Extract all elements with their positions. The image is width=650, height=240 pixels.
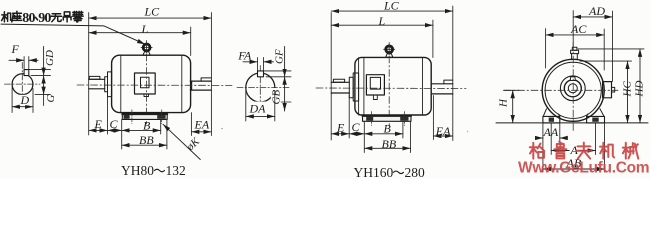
left bearing cap bbox=[353, 73, 358, 101]
foot bar bbox=[122, 113, 167, 119]
dimension AD bbox=[573, 16, 612, 18]
svg-text:AC: AC bbox=[570, 22, 587, 36]
extension lines below bbox=[349, 96, 433, 153]
eyebolt bbox=[143, 44, 150, 51]
GD dimension arrow bbox=[43, 47, 45, 76]
HD top tick bbox=[578, 48, 644, 50]
header note 机座80、90无吊攀 (hand-drawn hanzi + digits) bbox=[2, 11, 84, 26]
D dimension line bbox=[12, 106, 33, 108]
hanzi 吊 bbox=[63, 12, 71, 22]
shaft keyway notch bbox=[571, 77, 576, 81]
base line bbox=[496, 122, 648, 124]
right foot bbox=[587, 116, 605, 123]
gussets bbox=[543, 109, 604, 117]
svg-text:F: F bbox=[11, 42, 20, 56]
dimension E bbox=[331, 133, 349, 135]
svg-text:H: H bbox=[498, 98, 510, 108]
left shaft bbox=[89, 79, 105, 89]
GD ticks bbox=[29, 70, 51, 76]
terminal box (end view) bbox=[603, 82, 612, 98]
left bearing cap bbox=[108, 72, 112, 97]
foot hole slots bbox=[366, 117, 373, 121]
shaft circle DA bbox=[246, 73, 275, 102]
svg-text:90: 90 bbox=[38, 11, 51, 26]
GF dimension arrow bbox=[284, 47, 286, 77]
dimension L bbox=[89, 32, 191, 34]
svg-text:B: B bbox=[143, 119, 151, 133]
hanzi 无 bbox=[51, 14, 61, 22]
svg-text:D: D bbox=[20, 93, 30, 107]
left extension line (shaft end) bbox=[88, 13, 90, 136]
watermark hanzi 机 bbox=[600, 143, 614, 159]
D extension lines bbox=[12, 88, 33, 113]
dimension LC bbox=[331, 10, 453, 12]
dimension B bbox=[364, 133, 403, 135]
svg-text:BB: BB bbox=[382, 137, 397, 151]
L right extension bbox=[190, 27, 192, 56]
G tick bbox=[35, 94, 51, 96]
AD right extension bbox=[612, 11, 614, 82]
label D bbox=[20, 95, 31, 106]
svg-text:HD: HD bbox=[634, 81, 646, 98]
dimension EA bbox=[433, 135, 452, 137]
motor body bbox=[355, 57, 431, 115]
hanzi 机 bbox=[2, 12, 12, 22]
left extension line bbox=[330, 13, 332, 141]
end shield seam left bbox=[120, 55, 122, 112]
HC top tick bbox=[580, 60, 632, 62]
svg-text:E: E bbox=[336, 121, 345, 135]
F dimension arrows bbox=[9, 59, 24, 61]
centerline horizontal bbox=[77, 84, 232, 86]
dimension A bbox=[551, 150, 595, 152]
AC extensions bbox=[546, 29, 605, 71]
bearing boss circles bbox=[560, 76, 585, 101]
svg-text:YH160: YH160 bbox=[354, 165, 394, 179]
foot hole centerlines bbox=[132, 110, 162, 124]
svg-text:L: L bbox=[378, 14, 386, 28]
svg-text:GD: GD bbox=[44, 50, 56, 66]
end shield seam left bbox=[363, 58, 365, 115]
svg-text:DA: DA bbox=[249, 102, 267, 116]
centerline vertical bbox=[21, 63, 23, 104]
dimension AB bbox=[543, 168, 605, 170]
svg-text:EA: EA bbox=[194, 118, 210, 132]
foot hole centerlines bbox=[372, 112, 405, 126]
hanzi 座 bbox=[12, 11, 22, 22]
svg-text:HC: HC bbox=[622, 81, 634, 98]
svg-text:B: B bbox=[384, 122, 392, 136]
terminal box bbox=[366, 75, 384, 95]
left foot bbox=[543, 116, 560, 123]
AB extensions (foot outer edges) bbox=[543, 124, 605, 173]
GB dimension arrows bbox=[284, 77, 286, 111]
eyebolt bbox=[386, 46, 393, 53]
svg-text:80: 80 bbox=[22, 11, 35, 26]
right shaft bbox=[431, 84, 453, 94]
scan speck bbox=[467, 131, 468, 132]
centerline vertical bbox=[572, 43, 574, 132]
svg-text:G: G bbox=[45, 95, 57, 103]
watermark hanzi 格 bbox=[530, 143, 545, 159]
svg-text:LC: LC bbox=[144, 5, 161, 19]
outer frame circle bbox=[542, 59, 604, 121]
foot hole slots bbox=[124, 115, 130, 119]
keyway slot bbox=[258, 71, 264, 77]
FA extension lines bbox=[258, 58, 264, 71]
right extension line (shaft end) bbox=[210, 13, 212, 136]
svg-text:BB: BB bbox=[139, 133, 154, 147]
svg-text:E: E bbox=[94, 117, 103, 131]
right shaft key bbox=[444, 80, 453, 84]
AD left extension (centerline ext) bbox=[572, 11, 574, 48]
dimension AA arrows bbox=[536, 137, 543, 139]
dimension C bbox=[108, 129, 122, 131]
motor body bbox=[112, 55, 191, 112]
left shaft shoulder bbox=[105, 77, 108, 92]
G dimension arrows bbox=[43, 76, 45, 95]
A extensions (hole centers) bbox=[551, 124, 595, 155]
svg-text:132: 132 bbox=[166, 163, 186, 178]
left shaft key bbox=[89, 76, 100, 79]
dimension HC bbox=[627, 61, 629, 123]
svg-text:L: L bbox=[141, 22, 149, 36]
foot bar bbox=[363, 115, 412, 121]
watermark hanzi 鲁 bbox=[554, 142, 566, 159]
label GB (rotated) bbox=[271, 88, 281, 104]
centerline horizontal bbox=[504, 89, 618, 91]
end shield seam right bbox=[181, 55, 183, 112]
svg-text:280: 280 bbox=[405, 165, 426, 179]
dimension LC bbox=[89, 17, 212, 19]
svg-text:C: C bbox=[110, 117, 119, 131]
dimension BB bbox=[364, 147, 410, 149]
H top tick bbox=[504, 89, 520, 91]
centerline horizontal bbox=[5, 83, 41, 85]
F extension lines bbox=[24, 57, 29, 70]
right shaft key bbox=[201, 78, 211, 81]
dimension BB bbox=[122, 144, 167, 146]
inner frame circle bbox=[545, 62, 601, 118]
svg-text:Www.GeLufu.Com: Www.GeLufu.Com bbox=[518, 160, 649, 177]
svg-text:AA: AA bbox=[543, 125, 559, 139]
L right extension bbox=[432, 20, 434, 58]
centerline vertical bbox=[388, 43, 390, 127]
left shaft key bbox=[333, 79, 344, 82]
left shaft shoulder bbox=[349, 77, 353, 97]
left shaft bbox=[331, 82, 349, 93]
centerline horizontal bbox=[237, 86, 291, 88]
svg-text:C: C bbox=[352, 120, 361, 134]
hanzi 攀 bbox=[72, 11, 83, 22]
terminal box bbox=[135, 73, 156, 94]
keyway slot bbox=[24, 70, 29, 76]
svg-text:øK: øK bbox=[184, 135, 203, 154]
svg-text:GB: GB bbox=[271, 90, 283, 105]
leader diaK bbox=[163, 124, 200, 159]
svg-text:EA: EA bbox=[435, 124, 451, 138]
dimension E bbox=[89, 129, 108, 131]
GB tick bbox=[272, 101, 291, 103]
right shaft bbox=[190, 81, 211, 90]
dimension HD bbox=[639, 49, 641, 123]
FA dimension arrows bbox=[243, 61, 258, 63]
right extension line bbox=[452, 6, 454, 141]
DA extension lines bbox=[246, 91, 275, 122]
centerline vertical bbox=[146, 41, 148, 125]
dimension B bbox=[122, 129, 161, 131]
end shield seam right bbox=[422, 58, 424, 115]
extension lines below bbox=[108, 93, 192, 150]
svg-text:LC: LC bbox=[383, 0, 400, 13]
AA extensions bbox=[543, 124, 560, 142]
svg-text:GF: GF bbox=[274, 49, 286, 64]
label DA bbox=[249, 102, 267, 115]
svg-text:FA: FA bbox=[237, 48, 252, 62]
leader underline from note to eyebolt bbox=[1, 24, 145, 44]
DA dimension line bbox=[246, 115, 275, 117]
centerline vertical bbox=[259, 66, 261, 109]
inner frame line left bbox=[358, 58, 360, 115]
dimension EA bbox=[191, 131, 211, 133]
svg-text:YH80: YH80 bbox=[121, 163, 154, 178]
watermark hanzi 夫 bbox=[576, 143, 591, 159]
svg-text:AD: AD bbox=[588, 4, 605, 18]
dimension AC bbox=[546, 34, 605, 36]
dimension H bbox=[512, 90, 514, 123]
watermark hanzi 械 bbox=[623, 143, 639, 159]
shaft circle D bbox=[12, 74, 33, 95]
dimension L bbox=[331, 24, 433, 26]
GF ticks bbox=[264, 71, 292, 77]
centerline horizontal bbox=[316, 87, 466, 90]
grease fitting bbox=[572, 47, 577, 50]
dimension C bbox=[349, 133, 364, 135]
scan speck bbox=[221, 128, 223, 130]
enumeration comma 、 bbox=[36, 17, 38, 20]
